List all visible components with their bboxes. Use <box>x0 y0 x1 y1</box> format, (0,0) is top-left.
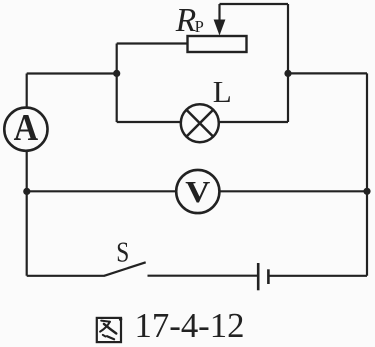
svg-text:P: P <box>195 17 204 36</box>
svg-text:V: V <box>185 174 211 209</box>
svg-text:17-4-12: 17-4-12 <box>135 306 245 345</box>
svg-text:S: S <box>116 236 129 268</box>
svg-text:R: R <box>175 2 196 39</box>
svg-text:A: A <box>14 107 39 149</box>
svg-text:L: L <box>213 74 232 109</box>
